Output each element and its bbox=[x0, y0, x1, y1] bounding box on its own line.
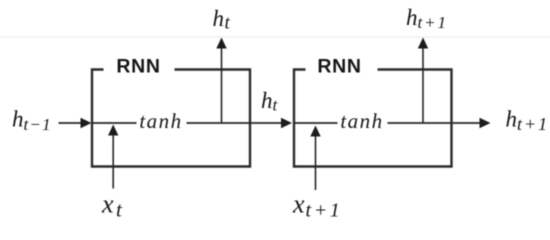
wire inside cell 1 (left edge to tanh) bbox=[92, 122, 137, 124]
wire h_{t-1} input arrow bbox=[59, 118, 92, 128]
svg-text:ht−1: ht−1 bbox=[12, 107, 52, 135]
wire output h_{t+1} arrow bbox=[388, 118, 491, 128]
wire input arrow x_t bbox=[108, 125, 118, 189]
svg-text:tanh: tanh bbox=[340, 109, 383, 133]
svg-text:ht+1: ht+1 bbox=[506, 107, 550, 135]
svg-text:tanh: tanh bbox=[139, 109, 182, 133]
wire input arrow x_{t+1} bbox=[310, 126, 320, 191]
svg-text:xt+1: xt+1 bbox=[292, 190, 342, 222]
svg-text:RNN: RNN bbox=[116, 56, 160, 78]
faint divider line bbox=[0, 36, 550, 38]
svg-text:ht: ht bbox=[261, 88, 279, 115]
RNN cell box U1 bbox=[92, 70, 250, 167]
wire tanh1 to cell 2 with arrowhead bbox=[187, 118, 293, 128]
wire up-arrow to h_{t+1} (cell 2) bbox=[418, 38, 428, 124]
svg-text:ht: ht bbox=[213, 6, 231, 34]
RNN cell box U2 bbox=[294, 70, 452, 167]
svg-text:ht+1: ht+1 bbox=[406, 5, 448, 32]
svg-text:RNN: RNN bbox=[317, 56, 361, 78]
svg-text:xt: xt bbox=[101, 190, 123, 222]
wire inside cell 2 (left edge to tanh) bbox=[294, 122, 338, 124]
wire up-arrow to h_t (cell 1) bbox=[216, 38, 226, 124]
